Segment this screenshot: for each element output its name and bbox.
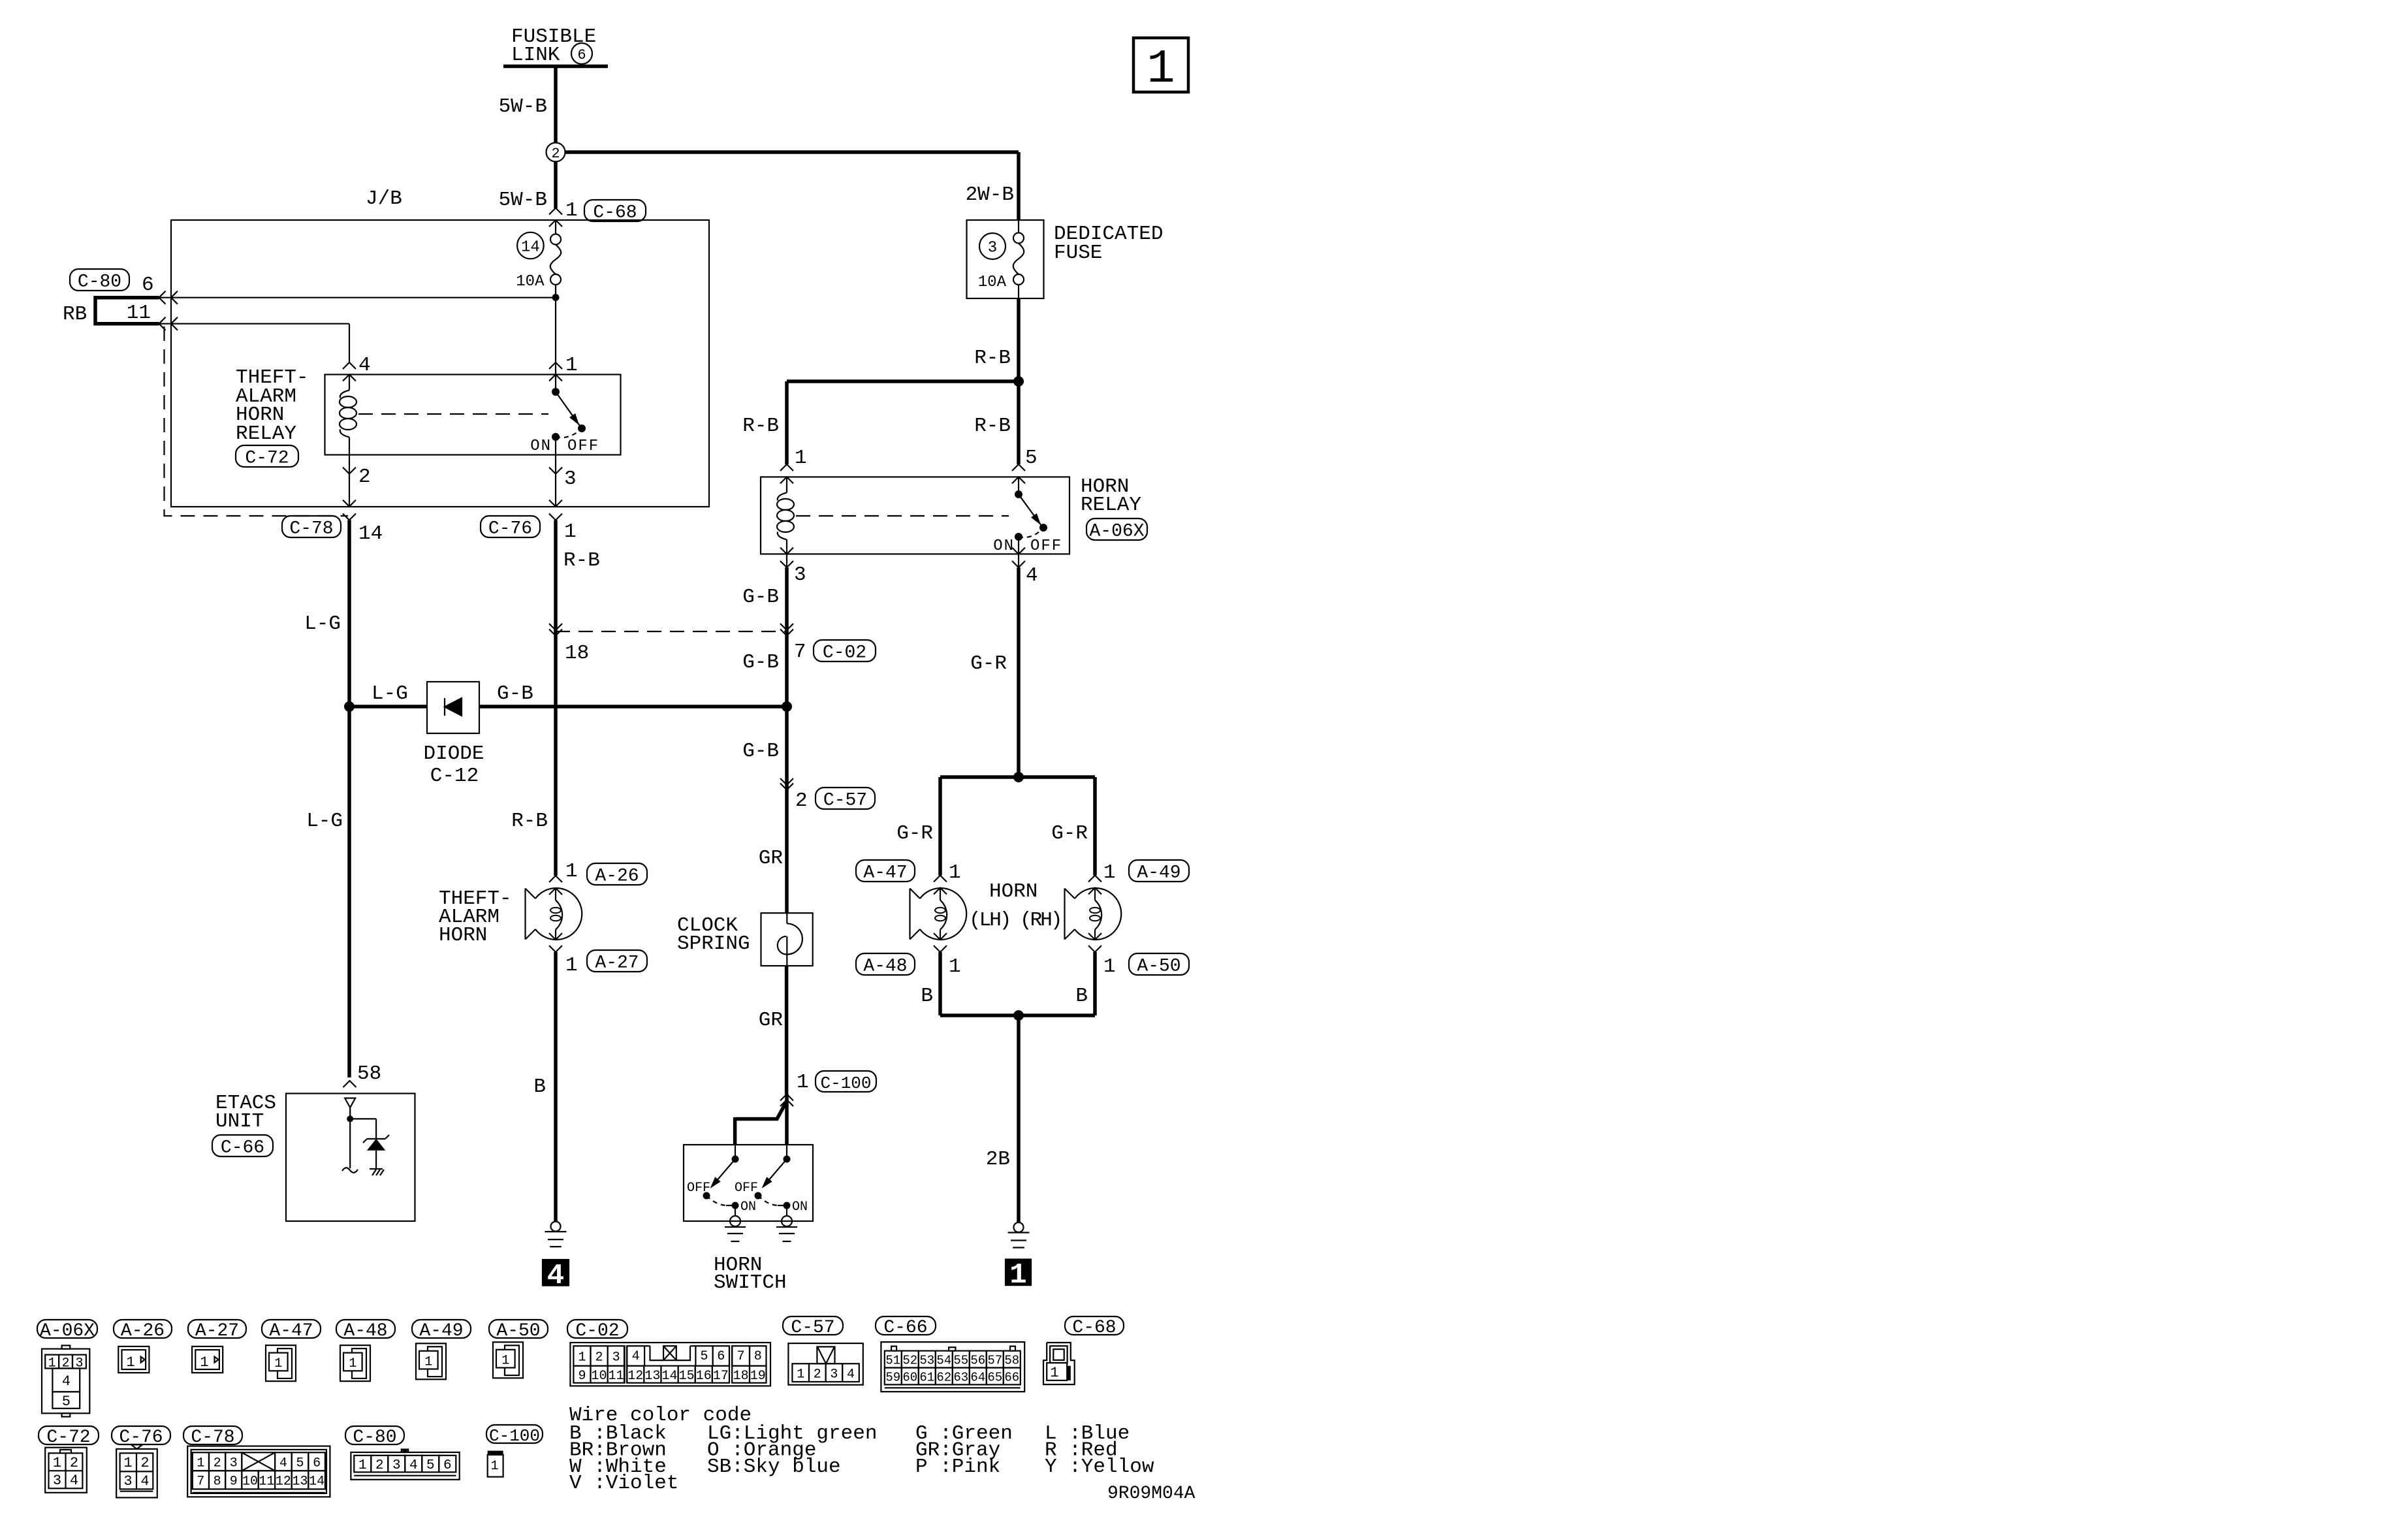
svg-text:18: 18	[565, 642, 589, 665]
ETACS unit box	[286, 1094, 415, 1222]
connector C-57 crossing on G-B wire	[780, 778, 793, 785]
horn relay pin 5 entry	[1012, 464, 1025, 471]
svg-text:C-100: C-100	[820, 1074, 871, 1093]
svg-text:5W-B: 5W-B	[499, 95, 547, 118]
connector table C-76	[112, 1426, 170, 1444]
svg-text:1: 1	[349, 1356, 356, 1371]
svg-text:C-02: C-02	[823, 643, 866, 663]
svg-text:5: 5	[1025, 447, 1038, 470]
svg-text:7: 7	[794, 641, 806, 663]
svg-text:A-26: A-26	[595, 867, 639, 887]
svg-text:1: 1	[1050, 1365, 1058, 1381]
svg-text:11: 11	[609, 1369, 624, 1384]
J/B exit connector C-78 pin 14	[343, 500, 356, 507]
svg-text:16: 16	[696, 1369, 712, 1384]
svg-text:B: B	[533, 1076, 546, 1098]
clock spring box	[761, 913, 813, 966]
svg-text:L-G: L-G	[306, 810, 343, 833]
svg-text:14: 14	[521, 239, 540, 257]
connector C-68 pin 1 entry to J/B	[549, 208, 562, 215]
svg-text:5: 5	[62, 1394, 71, 1410]
connector table C-57	[783, 1316, 843, 1335]
svg-text:R-B: R-B	[974, 347, 1011, 370]
connector C-02 pin 18 crossing on R-B wire	[549, 624, 562, 630]
svg-text:2B: 2B	[986, 1148, 1010, 1171]
svg-text:58: 58	[357, 1062, 381, 1085]
svg-text:3: 3	[230, 1456, 238, 1471]
junction dot horn branch bottom	[1013, 1010, 1024, 1021]
svg-text:19: 19	[750, 1369, 766, 1384]
svg-text:SB:Sky blue: SB:Sky blue	[707, 1456, 841, 1478]
svg-text:ON: ON	[530, 438, 552, 455]
wire 2B to ground	[1017, 1015, 1021, 1222]
ETACS input triangle	[345, 1098, 355, 1108]
svg-text:P :Pink: P :Pink	[915, 1456, 1000, 1478]
horn LH pin 1 connector A-48	[934, 933, 947, 940]
ground for horns	[1014, 1222, 1024, 1232]
wire to connector C-80 pin 6	[159, 297, 556, 298]
svg-text:6: 6	[443, 1458, 452, 1473]
svg-text:OFF: OFF	[687, 1181, 710, 1196]
svg-text:C-78: C-78	[191, 1427, 234, 1448]
splice node 2	[547, 143, 565, 162]
junction block J/B outline	[171, 220, 709, 507]
svg-text:C-76: C-76	[488, 519, 532, 539]
svg-text:1: 1	[797, 1071, 809, 1094]
svg-text:17: 17	[713, 1369, 729, 1384]
svg-text:C-100: C-100	[489, 1426, 540, 1446]
wire from C-80 pin 11 to theft-alarm horn relay pin 4	[159, 323, 350, 325]
svg-text:1: 1	[126, 1354, 135, 1371]
svg-text:LINK: LINK	[511, 44, 560, 67]
svg-text:3: 3	[53, 1473, 61, 1489]
svg-text:2: 2	[140, 1455, 149, 1471]
horn branch bottom wire	[940, 1013, 1095, 1017]
wire 5W-B from fusible link	[554, 67, 558, 144]
svg-text:R-B: R-B	[511, 810, 548, 833]
svg-text:1: 1	[1009, 1259, 1026, 1292]
connector C-80 capsule	[70, 269, 129, 291]
svg-text:59: 59	[885, 1370, 900, 1384]
svg-text:6: 6	[142, 274, 154, 296]
wire 58 into ETACS unit	[343, 1081, 356, 1087]
svg-text:3: 3	[988, 240, 997, 257]
wire 2W-B to dedicated fuse	[565, 150, 1019, 154]
svg-text:14: 14	[358, 522, 383, 545]
svg-text:OFF: OFF	[567, 438, 599, 455]
svg-text:ON: ON	[993, 537, 1015, 555]
svg-text:57: 57	[987, 1353, 1002, 1367]
connector table A-06X	[37, 1320, 97, 1338]
horn relay pin 3 exit	[780, 548, 793, 554]
svg-text:R-B: R-B	[974, 415, 1011, 438]
dedicated fuse element 10A	[1013, 233, 1024, 244]
svg-text:(LH) (RH): (LH) (RH)	[969, 909, 1060, 932]
svg-text:GR: GR	[759, 1009, 783, 1032]
svg-text:63: 63	[953, 1370, 968, 1384]
svg-text:L-G: L-G	[304, 613, 341, 635]
svg-text:2: 2	[375, 1458, 384, 1473]
horn switch right ground	[782, 1216, 792, 1226]
svg-text:1: 1	[501, 1353, 509, 1368]
ETACS zener diode to ground	[350, 1118, 376, 1119]
wire R-B from dedicated fuse	[1017, 298, 1021, 381]
svg-text:8: 8	[214, 1474, 221, 1490]
svg-text:A-27: A-27	[595, 953, 639, 974]
svg-text:4: 4	[1026, 564, 1038, 587]
svg-text:A-06X: A-06X	[1089, 522, 1144, 542]
dedicated fuse box	[967, 220, 1044, 298]
junction dot L-G at diode branch	[344, 701, 355, 712]
svg-text:1: 1	[565, 860, 578, 883]
svg-text:1: 1	[274, 1356, 282, 1371]
svg-text:51: 51	[885, 1353, 900, 1367]
svg-text:1: 1	[565, 354, 578, 377]
svg-text:4: 4	[279, 1456, 287, 1471]
wire G-B from diode to junction	[479, 705, 787, 709]
svg-text:14: 14	[309, 1474, 325, 1490]
svg-text:3: 3	[123, 1473, 132, 1490]
svg-text:G-B: G-B	[742, 740, 779, 763]
svg-text:3: 3	[564, 468, 577, 490]
svg-text:6: 6	[577, 47, 586, 63]
wire R-B to horn relay switch	[1017, 381, 1021, 464]
svg-text:G-R: G-R	[1051, 822, 1088, 845]
connector table A-47	[262, 1320, 321, 1338]
connector C-02 crossing on G-B wire	[780, 624, 793, 630]
page number 1 box	[1133, 38, 1188, 92]
svg-text:RB: RB	[63, 303, 87, 326]
svg-text:4: 4	[632, 1349, 640, 1364]
svg-text:1: 1	[123, 1455, 132, 1471]
svg-text:A-06X: A-06X	[40, 1321, 95, 1341]
svg-text:C-12: C-12	[430, 765, 479, 788]
ground for theft-alarm horn	[551, 1222, 561, 1232]
svg-text:R-B: R-B	[563, 549, 600, 572]
horn relay dashed actuation line	[796, 515, 1009, 517]
horn relay box	[761, 477, 1069, 554]
svg-text:12: 12	[276, 1474, 291, 1490]
theft-alarm horn relay box	[325, 375, 621, 455]
svg-text:7: 7	[197, 1474, 204, 1490]
svg-text:G-B: G-B	[742, 651, 779, 674]
horn relay pin 4 exit	[1012, 548, 1025, 554]
horn RH pin 1 connector A-50	[1088, 933, 1101, 940]
svg-text:13: 13	[292, 1474, 308, 1490]
svg-text:15: 15	[679, 1369, 695, 1384]
svg-text:1: 1	[949, 861, 961, 884]
svg-text:1: 1	[797, 1367, 804, 1382]
svg-text:6: 6	[717, 1349, 725, 1364]
svg-text:OFF: OFF	[1030, 537, 1062, 555]
svg-text:1: 1	[795, 447, 807, 470]
svg-text:RELAY: RELAY	[1081, 494, 1141, 517]
svg-text:A-47: A-47	[269, 1321, 313, 1341]
svg-text:2: 2	[814, 1367, 821, 1382]
svg-text:A-50: A-50	[1137, 957, 1180, 977]
dashed link between C-02 pins	[556, 631, 787, 632]
svg-text:66: 66	[1004, 1370, 1019, 1384]
relay pin 4 entry	[343, 362, 356, 369]
horn LH symbol	[920, 888, 966, 940]
svg-text:18: 18	[733, 1369, 749, 1384]
horn switch left contact	[735, 1145, 736, 1156]
page ref 1 black box	[1006, 1260, 1031, 1286]
relay pin 3 exit	[549, 468, 562, 474]
svg-text:1: 1	[564, 520, 577, 543]
relay pin 2 exit	[343, 468, 356, 474]
svg-text:54: 54	[936, 1353, 951, 1367]
svg-text:HORN: HORN	[989, 880, 1038, 903]
svg-text:1: 1	[197, 1456, 204, 1471]
ETACS internal node	[349, 1108, 351, 1119]
svg-text:11: 11	[127, 302, 151, 325]
svg-text:4: 4	[547, 1260, 564, 1292]
horn LH pin 1 connector A-47	[934, 876, 947, 882]
svg-text:A-49: A-49	[419, 1321, 463, 1341]
svg-text:Y :Yellow: Y :Yellow	[1045, 1456, 1154, 1478]
connector table C-80	[345, 1426, 404, 1444]
svg-text:C-72: C-72	[245, 449, 289, 469]
svg-text:C-68: C-68	[1072, 1318, 1116, 1338]
fuse 14 element 10A	[555, 220, 556, 234]
horn relay coil	[786, 477, 787, 492]
svg-text:A-48: A-48	[863, 957, 907, 977]
svg-text:C-02: C-02	[575, 1321, 619, 1341]
svg-text:1: 1	[565, 954, 578, 977]
svg-text:2: 2	[70, 1455, 78, 1471]
svg-text:13: 13	[644, 1369, 660, 1384]
svg-text:R-B: R-B	[742, 415, 779, 438]
svg-text:52: 52	[902, 1353, 917, 1367]
svg-text:61: 61	[919, 1370, 934, 1384]
svg-text:1: 1	[949, 955, 961, 978]
svg-text:5W-B: 5W-B	[499, 189, 547, 212]
theft-alarm horn relay capsule C-72	[236, 445, 298, 467]
svg-text:10: 10	[242, 1474, 258, 1490]
svg-text:4: 4	[847, 1367, 855, 1382]
connector table A-49	[412, 1320, 471, 1338]
diode C-12 symbol	[444, 698, 445, 716]
connector table C-66	[876, 1316, 936, 1335]
wire B from theft-alarm horn to ground	[554, 952, 558, 1222]
svg-text:C-80: C-80	[353, 1427, 396, 1448]
junction dot R-B	[1013, 376, 1024, 387]
svg-text:3: 3	[612, 1350, 620, 1365]
clock spring coil symbol	[786, 913, 787, 923]
svg-text:2: 2	[358, 466, 371, 488]
svg-text:C-80: C-80	[78, 272, 121, 293]
theft-alarm horn relay coil	[349, 375, 350, 390]
wire 5W-B to junction block	[554, 162, 558, 209]
connector table C-78	[183, 1426, 242, 1444]
svg-text:C-66: C-66	[221, 1138, 264, 1158]
ETACS driver output	[349, 1119, 351, 1168]
svg-text:9: 9	[230, 1474, 238, 1490]
svg-text:B: B	[1075, 985, 1088, 1008]
diode C-12 box	[427, 682, 479, 733]
wire L-G from C-78 pin 14 down	[347, 520, 351, 1078]
svg-text:1: 1	[1103, 955, 1116, 978]
svg-text:1: 1	[358, 1458, 367, 1473]
connector table C-68	[1065, 1316, 1124, 1335]
svg-text:4: 4	[409, 1458, 418, 1473]
svg-text:3: 3	[830, 1367, 838, 1382]
wire G-B from horn relay pin 3	[785, 567, 789, 913]
svg-text:1: 1	[578, 1350, 586, 1365]
svg-text:65: 65	[987, 1370, 1002, 1384]
page ref 4 black box	[543, 1260, 569, 1286]
wire G-R from horn relay pin 4	[1017, 567, 1021, 777]
svg-text:2: 2	[551, 146, 560, 162]
connector table A-48	[336, 1320, 395, 1338]
svg-text:2: 2	[214, 1456, 221, 1471]
junction dot below fuse 14	[552, 294, 560, 301]
svg-text:9: 9	[578, 1369, 586, 1384]
dedicated fuse circled 3	[979, 233, 1006, 259]
svg-text:12: 12	[627, 1369, 643, 1384]
svg-text:60: 60	[902, 1370, 917, 1384]
J/B exit connector C-76 pin 1	[549, 500, 562, 507]
svg-text:1: 1	[565, 199, 578, 222]
svg-text:V :Violet: V :Violet	[569, 1472, 678, 1495]
svg-text:J/B: J/B	[366, 187, 402, 210]
theft-alarm horn pin 1 connector A-27	[549, 933, 562, 940]
svg-text:C-57: C-57	[823, 791, 867, 811]
connector table A-50	[489, 1320, 548, 1338]
svg-text:RELAY: RELAY	[236, 422, 296, 445]
svg-text:2W-B: 2W-B	[966, 183, 1014, 206]
connector table C-100	[486, 1425, 543, 1443]
svg-text:2: 2	[795, 789, 808, 812]
svg-text:L-G: L-G	[372, 682, 408, 705]
svg-text:A-48: A-48	[343, 1321, 387, 1341]
wire R-B from C-76 pin 1 down	[554, 520, 558, 876]
svg-text:1: 1	[200, 1354, 208, 1371]
svg-text:ON: ON	[792, 1200, 808, 1215]
svg-text:C-66: C-66	[883, 1318, 927, 1338]
svg-text:A-27: A-27	[195, 1321, 239, 1341]
wire L-G to diode	[349, 705, 427, 709]
wire R-B branch to horn relay coil	[787, 379, 1019, 383]
svg-text:1: 1	[1103, 861, 1116, 884]
connector table A-27	[188, 1320, 246, 1338]
connector table A-26	[114, 1320, 172, 1338]
junction dot horn branch top	[1013, 772, 1024, 782]
svg-text:10A: 10A	[978, 274, 1007, 291]
svg-text:SWITCH: SWITCH	[714, 1271, 787, 1294]
svg-text:7: 7	[737, 1349, 745, 1364]
svg-text:4: 4	[140, 1473, 149, 1490]
relay pin 1 entry from fuse	[549, 362, 562, 369]
theft-alarm horn relay switch	[555, 375, 556, 392]
svg-text:A-49: A-49	[1137, 863, 1180, 884]
dashed theft-alarm option boundary	[165, 327, 349, 516]
svg-text:C-57: C-57	[791, 1318, 834, 1338]
svg-text:62: 62	[936, 1370, 951, 1384]
junction dot G-B at diode branch	[782, 701, 792, 712]
svg-text:58: 58	[1004, 1353, 1019, 1367]
svg-text:UNIT: UNIT	[215, 1110, 264, 1133]
svg-text:5: 5	[426, 1458, 435, 1473]
svg-text:9R09M04A: 9R09M04A	[1107, 1484, 1196, 1504]
svg-text:6: 6	[313, 1456, 321, 1471]
horn switch left ground	[730, 1216, 740, 1226]
svg-text:14: 14	[661, 1369, 677, 1384]
svg-text:A-50: A-50	[496, 1321, 540, 1341]
svg-text:1: 1	[1147, 42, 1175, 96]
svg-text:C-72: C-72	[46, 1427, 90, 1448]
svg-text:4: 4	[62, 1373, 71, 1390]
theft-alarm horn symbol	[535, 888, 582, 940]
svg-text:G-R: G-R	[896, 822, 933, 845]
svg-text:2: 2	[595, 1350, 603, 1365]
svg-text:A-47: A-47	[863, 863, 907, 884]
connector table C-72	[39, 1426, 99, 1444]
svg-text:5: 5	[296, 1456, 304, 1471]
theft-alarm horn pin 1 connector A-26	[549, 876, 562, 882]
ETACS unit capsule C-66	[212, 1135, 273, 1156]
svg-text:GR: GR	[759, 847, 783, 870]
horn relay capsule A-06X	[1086, 518, 1147, 540]
svg-text:10A: 10A	[516, 273, 545, 291]
svg-text:4: 4	[70, 1473, 78, 1489]
svg-text:5: 5	[700, 1349, 708, 1364]
horn relay pin 1 entry	[780, 464, 793, 471]
svg-text:1: 1	[424, 1354, 432, 1369]
svg-text:FUSE: FUSE	[1054, 242, 1102, 264]
wire GR below clock spring	[785, 966, 789, 1094]
svg-text:1: 1	[53, 1455, 61, 1471]
horn branch top wire	[940, 775, 1095, 779]
svg-text:64: 64	[970, 1370, 985, 1384]
horn RH pin 1 connector A-49	[1088, 876, 1101, 882]
svg-text:G-B: G-B	[497, 682, 533, 705]
svg-text:10: 10	[592, 1369, 607, 1384]
svg-text:3: 3	[392, 1458, 401, 1473]
svg-text:DIODE: DIODE	[423, 742, 484, 765]
horn relay switch	[1018, 477, 1019, 494]
wire branch to horn switch left contact	[735, 1101, 787, 1119]
svg-text:ON: ON	[740, 1200, 756, 1215]
svg-text:53: 53	[919, 1353, 934, 1367]
svg-text:C-78: C-78	[289, 519, 333, 539]
connector table C-02	[567, 1320, 627, 1338]
connector C-100 crossing	[780, 1094, 793, 1101]
svg-text:3: 3	[794, 564, 806, 586]
svg-text:G-R: G-R	[970, 652, 1007, 675]
horn switch right contact	[786, 1145, 787, 1156]
svg-text:SPRING: SPRING	[677, 932, 750, 955]
svg-text:OFF: OFF	[735, 1181, 758, 1196]
svg-text:11: 11	[259, 1474, 274, 1490]
horn ground wires B	[938, 952, 942, 1015]
relay dashed actuation line	[358, 413, 548, 415]
svg-text:HORN: HORN	[439, 924, 487, 947]
wire GR into horn switch right contact	[785, 1094, 789, 1145]
horn switch box	[684, 1145, 813, 1221]
horn RH symbol	[1075, 888, 1121, 940]
svg-text:56: 56	[970, 1353, 985, 1367]
fuse 14 circled label	[517, 232, 544, 259]
svg-text:B: B	[921, 985, 933, 1008]
svg-text:1: 1	[490, 1459, 498, 1474]
svg-text:55: 55	[953, 1353, 968, 1367]
svg-text:8: 8	[754, 1349, 762, 1364]
svg-text:G-B: G-B	[742, 586, 779, 609]
svg-text:A-26: A-26	[121, 1321, 165, 1341]
svg-text:4: 4	[358, 354, 371, 377]
